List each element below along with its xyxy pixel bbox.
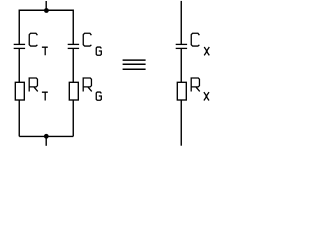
wire: right-circuit top lead bbox=[180, 1, 182, 44]
wire: CT bottom plate to RT box bbox=[18, 48, 20, 82]
label CG subscript G bbox=[96, 47, 101, 55]
wire: RT box to bottom rail bbox=[18, 100, 20, 136]
wire: CX bottom plate to RX box bbox=[180, 48, 182, 82]
wire: CG bottom plate to RG box bbox=[72, 48, 74, 82]
wire: left-circuit bottom rail bbox=[19, 135, 73, 137]
wire: left-circuit top loop (left lead, top rail, right lead) bbox=[19, 10, 73, 44]
wire: RX box to bottom end bbox=[180, 100, 182, 146]
label CG letter C bbox=[83, 33, 91, 46]
resistor RG box bbox=[69, 82, 78, 100]
label RT subscript T bbox=[42, 92, 48, 100]
label RT letter R bbox=[29, 78, 38, 92]
wire: RG box to bottom rail bbox=[72, 100, 74, 136]
equivalence symbol (triple bar) bbox=[123, 60, 146, 69]
capacitor CG plates bbox=[68, 44, 79, 48]
node B: bottom junction dot bbox=[44, 134, 49, 139]
label RX letter R bbox=[191, 78, 200, 92]
label RX subscript X bbox=[204, 92, 209, 100]
label RG subscript G bbox=[96, 92, 101, 100]
resistor RT box bbox=[15, 82, 24, 100]
label CT letter C bbox=[29, 33, 37, 46]
wire: bottom stub below junction bbox=[45, 136, 47, 145]
node A: top junction dot bbox=[44, 8, 49, 13]
label CX subscript X bbox=[204, 47, 209, 55]
label CT subscript T bbox=[42, 47, 48, 55]
resistor RX box bbox=[177, 82, 186, 100]
wire: top stub above junction bbox=[45, 1, 47, 10]
label RG letter R bbox=[83, 78, 92, 92]
capacitor CT plates bbox=[14, 44, 25, 48]
capacitor CX plates bbox=[176, 44, 187, 48]
label CX letter C bbox=[191, 33, 199, 46]
